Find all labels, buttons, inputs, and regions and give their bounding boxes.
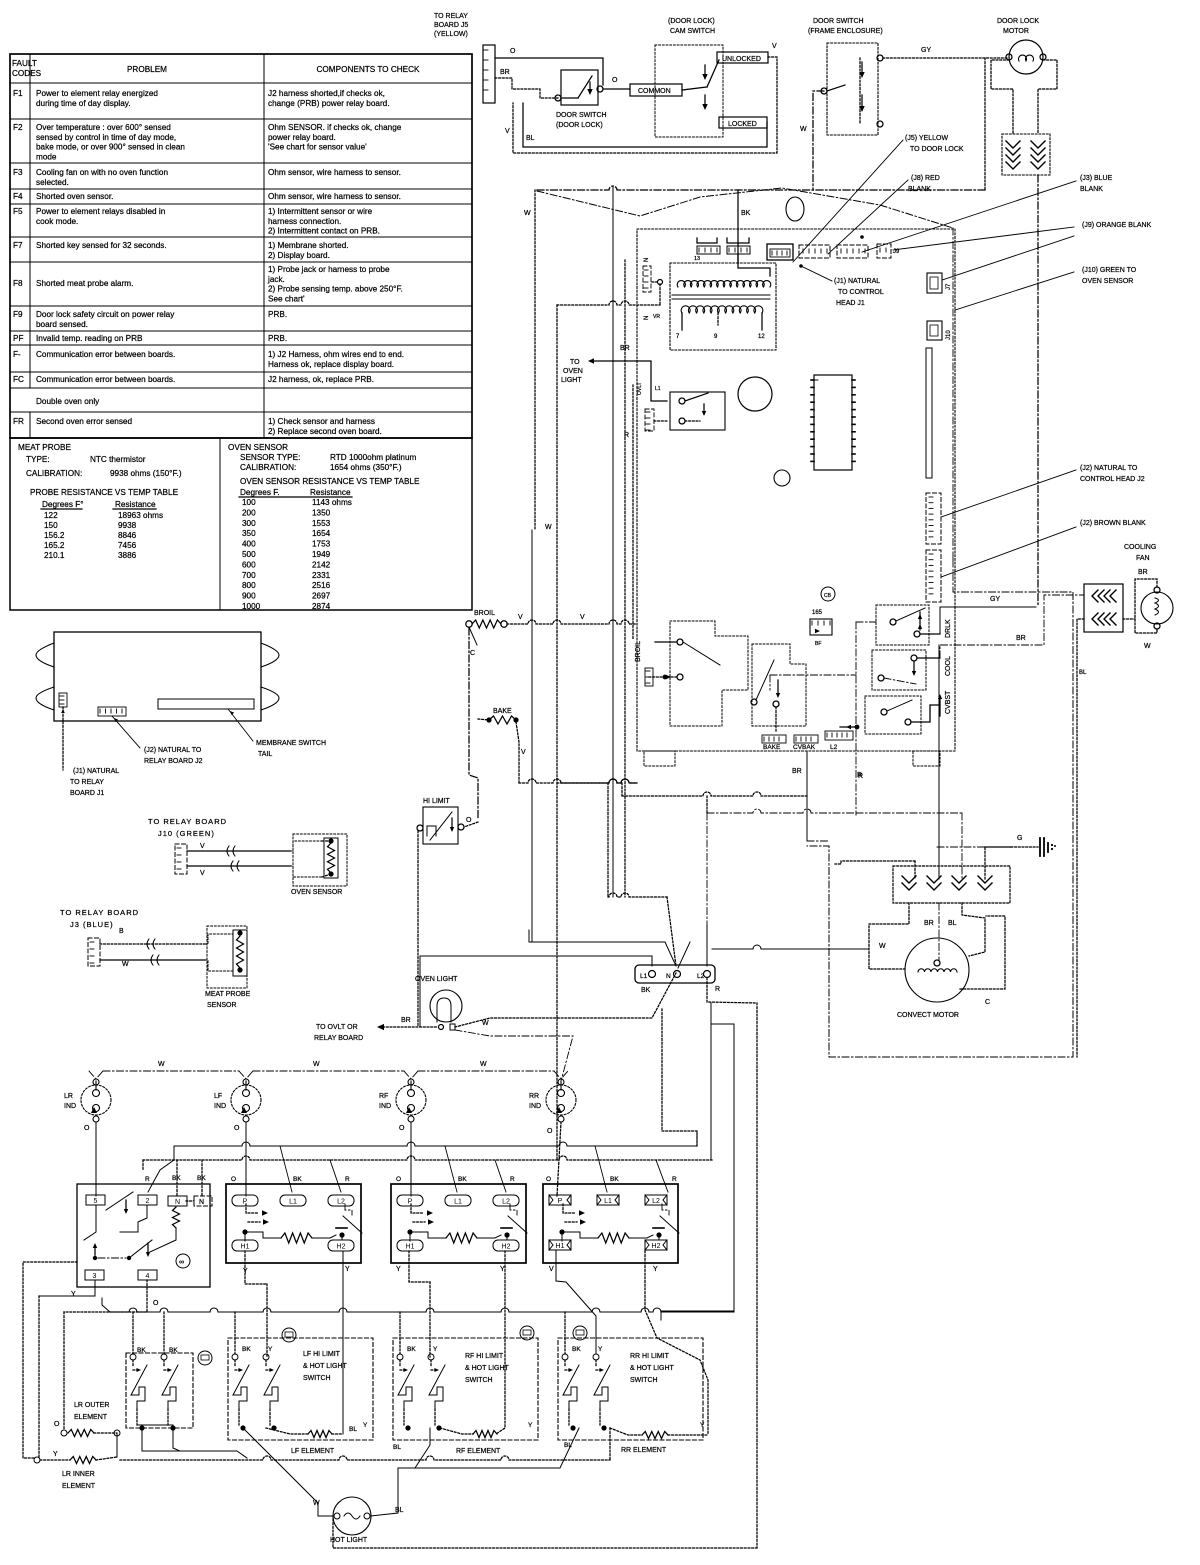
svg-text:selected.: selected. (36, 178, 69, 187)
RR ELEMENT (610, 1428, 642, 1435)
svg-text:BROIL: BROIL (474, 610, 495, 617)
svg-text:LR: LR (64, 1093, 73, 1100)
svg-text:1) J2 Harness, ohm wires end t: 1) J2 Harness, ohm wires end to end. (268, 350, 404, 359)
svg-text:L1: L1 (289, 1199, 297, 1206)
svg-text:L2: L2 (652, 1198, 660, 1205)
svg-text:COMPONENTS TO CHECK: COMPONENTS TO CHECK (317, 65, 421, 74)
svg-text:Shorted key sensed for 32 seco: Shorted key sensed for 32 seconds. (36, 241, 167, 250)
svg-text:(J1) NATURAL: (J1) NATURAL (834, 278, 880, 285)
svg-text:(J10) GREEN TO: (J10) GREEN TO (1082, 267, 1137, 274)
wire from PRB bottom y796 (621, 783, 623, 796)
svg-text:Invalid temp. reading on PRB: Invalid temp. reading on PRB (36, 334, 143, 343)
svg-text:UNLOCKED: UNLOCKED (722, 56, 761, 63)
svg-text:SWITCH: SWITCH (303, 1375, 331, 1382)
svg-text:CB: CB (824, 593, 832, 599)
svg-text:V: V (772, 43, 777, 50)
svg-text:mode: mode (36, 152, 57, 161)
svg-text:VR: VR (653, 314, 660, 320)
small circle component (774, 470, 790, 486)
svg-text:board sensed.: board sensed. (36, 320, 88, 329)
svg-text:N: N (199, 1199, 204, 1206)
PRB right edge trunk (952, 228, 954, 560)
circled CO LR (198, 1351, 212, 1365)
svg-text:BR: BR (1138, 569, 1148, 576)
svg-text:1143 ohms: 1143 ohms (312, 498, 352, 507)
transformer (670, 263, 776, 350)
svg-text:BK: BK (172, 1175, 181, 1182)
svg-text:CONTROL HEAD J2: CONTROL HEAD J2 (1080, 476, 1145, 483)
svg-text:CVBST: CVBST (945, 690, 952, 714)
svg-text:HI LIMIT: HI LIMIT (423, 798, 451, 805)
svg-text:350: 350 (242, 529, 256, 538)
svg-text:DRLK: DRLK (945, 619, 952, 638)
svg-text:5: 5 (94, 1198, 98, 1205)
svg-text:OVEN SENSOR: OVEN SENSOR (291, 889, 342, 896)
svg-text:Y: Y (653, 1266, 658, 1273)
svg-text:PROBE RESISTANCE VS TEMP TABLE: PROBE RESISTANCE VS TEMP TABLE (30, 488, 179, 497)
svg-text:Y: Y (396, 1266, 401, 1273)
svg-text:BK: BK (407, 1346, 416, 1353)
svg-text:BK: BK (197, 1175, 206, 1182)
svg-text:RR ELEMENT: RR ELEMENT (621, 1447, 667, 1454)
svg-text:C: C (470, 650, 475, 657)
svg-text:LIGHT: LIGHT (561, 377, 582, 384)
svg-text:O: O (466, 817, 472, 824)
svg-text:2) Intermittent contact on PRB: 2) Intermittent contact on PRB. (268, 227, 380, 236)
N drops box1 (176, 1160, 178, 1196)
svg-text:8846: 8846 (118, 531, 137, 540)
svg-text:Communication error between bo: Communication error between boards. (36, 350, 175, 359)
display board (control head) (54, 632, 261, 721)
CVBST relay (865, 696, 921, 734)
svg-text:FAULT: FAULT (12, 59, 37, 68)
svg-text:1) Intermittent sensor or wire: 1) Intermittent sensor or wire (268, 207, 373, 216)
svg-text:Y: Y (528, 1422, 533, 1429)
svg-text:(J1) NATURAL: (J1) NATURAL (73, 768, 119, 775)
svg-text:2331: 2331 (312, 571, 331, 580)
svg-text:V: V (505, 128, 510, 135)
svg-text:CODES: CODES (12, 69, 42, 78)
svg-text:sensed by control in time of d: sensed by control in time of day mode, (36, 133, 176, 142)
svg-text:IND: IND (379, 1103, 391, 1110)
svg-text:H2: H2 (337, 1244, 346, 1251)
wire from hi-limit left down (417, 831, 419, 1027)
svg-text:OVEN SENSOR: OVEN SENSOR (1082, 278, 1133, 285)
svg-text:300: 300 (242, 519, 256, 528)
svg-text:O: O (612, 77, 618, 84)
svg-text:1654 ohms (350°F.): 1654 ohms (350°F.) (330, 463, 402, 472)
svg-text:LR INNER: LR INNER (62, 1471, 95, 1478)
svg-text:O: O (84, 1125, 90, 1132)
svg-text:7456: 7456 (118, 541, 137, 550)
svg-text:PF: PF (13, 334, 23, 343)
trunk x=613 solid (612, 187, 614, 897)
svg-text:(J9) ORANGE BLANK: (J9) ORANGE BLANK (1082, 222, 1152, 229)
DRLK relay (876, 605, 929, 645)
svg-text:Degrees F.: Degrees F. (240, 488, 280, 497)
svg-text:100: 100 (242, 498, 256, 507)
svg-text:Y: Y (433, 1346, 438, 1353)
diagonal drops to L1/L2 (280, 1146, 292, 1192)
svg-text:J2 harness, ok, replace PRB.: J2 harness, ok, replace PRB. (268, 375, 374, 384)
svg-text:W: W (122, 961, 129, 968)
svg-text:RTD 1000ohm platinum: RTD 1000ohm platinum (330, 453, 416, 462)
dashdot y841 (807, 840, 829, 842)
svg-text:BAKE: BAKE (763, 744, 781, 751)
svg-text:TO RELAY: TO RELAY (434, 13, 468, 20)
svg-text:O: O (510, 48, 516, 55)
left outer wire (23, 1262, 77, 1458)
svg-text:OVEN LIGHT: OVEN LIGHT (415, 976, 458, 983)
svg-text:H1: H1 (406, 1244, 415, 1251)
junction + coil connectors BAKE CVBAK L2 (855, 725, 860, 730)
oven light relay (670, 392, 725, 430)
svg-text:Shorted meat probe alarm.: Shorted meat probe alarm. (36, 279, 133, 288)
svg-text:MEMBRANE SWITCH: MEMBRANE SWITCH (256, 740, 326, 747)
svg-text:V: V (549, 1266, 554, 1273)
svg-text:BR: BR (1016, 635, 1026, 642)
connector J9 (877, 244, 891, 258)
svg-text:RR HI LIMIT: RR HI LIMIT (630, 1353, 670, 1360)
svg-text:TO RELAY BOARD: TO RELAY BOARD (148, 817, 227, 826)
svg-text:600: 600 (242, 560, 256, 569)
svg-text:DOOR SWITCH: DOOR SWITCH (813, 18, 864, 25)
svg-text:Y: Y (268, 1346, 273, 1353)
svg-text:O: O (231, 1176, 236, 1183)
wire y897 to N (608, 893, 667, 897)
svg-text:NTC thermistor: NTC thermistor (90, 455, 146, 464)
svg-text:Y: Y (700, 1422, 705, 1429)
svg-text:G: G (1017, 835, 1022, 842)
svg-text:Cooling fan on with no oven fu: Cooling fan on with no oven function (36, 168, 168, 177)
svg-text:Y: Y (53, 1451, 58, 1458)
svg-text:O: O (399, 1125, 405, 1132)
svg-text:jack.: jack. (267, 275, 285, 284)
svg-text:CONVECT MOTOR: CONVECT MOTOR (897, 1012, 959, 1019)
svg-text:3: 3 (93, 1273, 97, 1280)
svg-text:BK: BK (572, 1346, 581, 1353)
svg-text:∞: ∞ (179, 1259, 184, 1266)
svg-text:400: 400 (242, 540, 256, 549)
svg-text:Power to element relays disabl: Power to element relays disabled in (36, 207, 166, 216)
svg-text:SWITCH: SWITCH (630, 1377, 658, 1384)
svg-text:Communication error between bo: Communication error between boards. (36, 375, 175, 384)
svg-text:N: N (644, 316, 650, 320)
relay coil circle (738, 377, 772, 411)
svg-text:1) Probe jack or harness to pr: 1) Probe jack or harness to probe (268, 265, 390, 274)
svg-text:RF: RF (379, 1093, 388, 1100)
svg-text:Shorted oven sensor.: Shorted oven sensor. (36, 192, 113, 201)
svg-text:Ohm SENSOR. if checks ok, chan: Ohm SENSOR. if checks ok, change (268, 123, 402, 132)
svg-text:O: O (546, 1176, 551, 1183)
svg-text:BLANK: BLANK (1080, 186, 1103, 193)
svg-text:BAKE: BAKE (493, 708, 512, 715)
J2 connector brown (right edge) (926, 550, 941, 602)
svg-text:N: N (175, 1199, 180, 1206)
svg-text:J10 (GREEN): J10 (GREEN) (158, 829, 215, 838)
trunk x=625 dotted (624, 260, 626, 897)
svg-text:1) Membrane shorted.: 1) Membrane shorted. (268, 241, 349, 250)
svg-text:IND: IND (214, 1103, 226, 1110)
svg-text:P: P (558, 1198, 563, 1205)
svg-text:F1: F1 (13, 89, 23, 98)
svg-text:RELAY BOARD: RELAY BOARD (314, 1035, 363, 1042)
svg-text:BK: BK (293, 1176, 302, 1183)
svg-text:W: W (524, 210, 531, 217)
RF surface unit switch (391, 1184, 526, 1263)
svg-text:BL: BL (349, 1426, 357, 1433)
svg-text:Ohm sensor, wire harness to se: Ohm sensor, wire harness to sensor. (268, 192, 401, 201)
bake relay (752, 644, 806, 726)
fault code table (10, 54, 472, 438)
svg-text:2: 2 (146, 1198, 150, 1205)
svg-text:H1: H1 (556, 1243, 565, 1250)
svg-text:Resistance: Resistance (310, 488, 351, 497)
svg-text:FR: FR (13, 417, 24, 426)
svg-text:1) Check sensor and harness: 1) Check sensor and harness (268, 417, 375, 426)
svg-text:during time of day display.: during time of day display. (36, 99, 131, 108)
svg-text:P: P (408, 1199, 413, 1206)
svg-text:BR: BR (401, 1017, 411, 1024)
svg-text:ELEMENT: ELEMENT (74, 1414, 108, 1421)
wire GY loop to PRB (984, 58, 986, 190)
indicator light LF IND (231, 1085, 261, 1115)
svg-text:V: V (580, 614, 585, 621)
svg-text:RR: RR (529, 1093, 539, 1100)
svg-text:SENSOR: SENSOR (207, 1002, 237, 1009)
svg-text:156.2: 156.2 (44, 531, 65, 540)
RR surface unit switch (543, 1184, 678, 1263)
indicator light LR IND (81, 1085, 111, 1115)
svg-text:(J2) NATURAL TO: (J2) NATURAL TO (144, 747, 202, 754)
svg-text:O: O (396, 1176, 401, 1183)
svg-text:FAN: FAN (1136, 555, 1150, 562)
svg-text:BLANK: BLANK (908, 186, 931, 193)
svg-text:O: O (547, 1128, 553, 1135)
LF ELEMENT (266, 1428, 308, 1434)
svg-text:R: R (672, 1176, 677, 1183)
svg-text:harness connection.: harness connection. (268, 217, 341, 226)
meat probe sensor (207, 926, 247, 988)
svg-text:F4: F4 (13, 192, 23, 201)
svg-text:F8: F8 (13, 279, 23, 288)
svg-text:CALIBRATION:: CALIBRATION: (240, 463, 296, 472)
svg-text:Y: Y (598, 1346, 603, 1353)
svg-text:'See chart for sensor value': 'See chart for sensor value' (268, 143, 367, 152)
svg-text:18963 ohms: 18963 ohms (118, 511, 163, 520)
svg-text:W: W (158, 1061, 165, 1068)
svg-text:FC: FC (13, 375, 24, 384)
connector J8 (799, 245, 830, 258)
svg-text:Double oven only: Double oven only (36, 397, 100, 406)
bus1 solid y1146 (174, 1142, 697, 1146)
svg-text:BR: BR (500, 69, 510, 76)
svg-text:J3 (BLUE): J3 (BLUE) (70, 920, 114, 929)
svg-text:2697: 2697 (312, 592, 331, 601)
LR surface unit switch (dual) (77, 1184, 210, 1287)
svg-text:(DOOR LOCK): (DOOR LOCK) (668, 18, 715, 25)
unlocked contact (717, 52, 768, 63)
convect enclosure (807, 592, 1073, 1057)
trunk drops join buses (556, 1146, 558, 1160)
svg-text:Harness ok, replace display bo: Harness ok, replace display board. (268, 360, 394, 369)
svg-text:1000: 1000 (242, 602, 261, 611)
door lock motor leads (991, 60, 1013, 134)
svg-text:L1: L1 (454, 1199, 462, 1206)
svg-text:(YELLOW): (YELLOW) (434, 31, 468, 38)
svg-text:TO CONTROL: TO CONTROL (838, 289, 884, 296)
svg-text:W: W (480, 1061, 487, 1068)
svg-text:BK: BK (169, 1347, 178, 1354)
svg-text:RF ELEMENT: RF ELEMENT (456, 1448, 501, 1455)
svg-text:O: O (234, 1125, 240, 1132)
svg-text:(J5) YELLOW: (J5) YELLOW (905, 135, 948, 142)
svg-text:F-: F- (13, 350, 21, 359)
svg-text:PROBLEM: PROBLEM (127, 65, 167, 74)
svg-text:LF: LF (214, 1093, 222, 1100)
svg-text:TO DOOR LOCK: TO DOOR LOCK (910, 146, 964, 153)
svg-text:W: W (1144, 643, 1151, 650)
svg-text:OVEN SENSOR: OVEN SENSOR (228, 443, 288, 452)
svg-text:Door lock safety circuit on po: Door lock safety circuit on power relay (36, 310, 175, 319)
svg-text:OVEN SENSOR RESISTANCE VS TEMP: OVEN SENSOR RESISTANCE VS TEMP TABLE (240, 477, 420, 486)
svg-text:BL: BL (526, 135, 535, 142)
IC chip (814, 375, 852, 470)
svg-text:R: R (857, 772, 862, 779)
connector J7 right edge (927, 273, 942, 293)
broil switch blade + C (469, 627, 477, 645)
J2 connector on display board (98, 707, 126, 716)
svg-text:TO RELAY BOARD: TO RELAY BOARD (60, 908, 139, 917)
svg-text:BR: BR (924, 920, 934, 927)
svg-text:& HOT LIGHT: & HOT LIGHT (630, 1365, 675, 1372)
svg-text:& HOT LIGHT: & HOT LIGHT (465, 1365, 510, 1372)
left PRB trunk wires (632, 385, 634, 640)
svg-text:BK: BK (458, 1176, 467, 1183)
svg-text:210.1: 210.1 (44, 551, 65, 560)
svg-text:J7: J7 (946, 283, 952, 290)
wire from solenoid down (J3 blue trunk) (1037, 175, 1039, 607)
svg-text:HEAD J1: HEAD J1 (836, 300, 865, 307)
svg-text:W: W (800, 126, 807, 133)
svg-text:O: O (54, 1421, 60, 1428)
svg-text:1949: 1949 (312, 550, 331, 559)
svg-text:165.2: 165.2 (44, 541, 65, 550)
svg-text:OVEN: OVEN (563, 368, 583, 375)
svg-text:LF ELEMENT: LF ELEMENT (291, 1448, 335, 1455)
svg-text:R: R (510, 1176, 515, 1183)
svg-text:L1: L1 (655, 386, 661, 392)
COOL relay (872, 650, 926, 690)
svg-text:CVBAK: CVBAK (793, 744, 816, 751)
svg-text:DOOR LOCK: DOOR LOCK (997, 18, 1039, 25)
svg-text:N: N (644, 258, 650, 262)
relay feed dash-dot (770, 674, 856, 676)
svg-text:(J2) BROWN BLANK: (J2) BROWN BLANK (1080, 520, 1146, 527)
svg-text:MEAT PROBE: MEAT PROBE (205, 991, 251, 998)
broil relay coil connector (645, 668, 653, 686)
PRB mounting tabs bottom (644, 751, 675, 766)
trunk x=533 (534, 305, 536, 530)
svg-text:(FRAME ENCLOSURE): (FRAME ENCLOSURE) (808, 28, 883, 35)
svg-text:W: W (313, 1500, 320, 1507)
J1 connector on display board (59, 693, 67, 707)
svg-text:See chart': See chart' (268, 294, 305, 303)
svg-text:500: 500 (242, 550, 256, 559)
svg-text:Y: Y (363, 1422, 368, 1429)
svg-text:COOLING: COOLING (1124, 544, 1156, 551)
small connector at relay left (645, 409, 654, 431)
svg-text:122: 122 (44, 511, 58, 520)
svg-text:H2: H2 (502, 1244, 511, 1251)
svg-text:LR OUTER: LR OUTER (74, 1402, 109, 1409)
svg-text:(DOOR LOCK): (DOOR LOCK) (556, 122, 603, 129)
svg-text:BK: BK (242, 1346, 251, 1353)
narrow component bar (926, 348, 932, 478)
LF surface unit switch (226, 1184, 361, 1263)
LR switch internals (106, 1192, 133, 1210)
svg-text:F5: F5 (13, 207, 23, 216)
leader J2 (112, 716, 140, 748)
svg-text:900: 900 (242, 592, 256, 601)
svg-text:power relay board.: power relay board. (268, 133, 336, 142)
svg-text:BL: BL (393, 1444, 401, 1451)
svg-text:150: 150 (44, 521, 58, 530)
svg-text:LOCKED: LOCKED (728, 121, 757, 128)
RF hi limit & hot light switch group (393, 1338, 538, 1440)
svg-text:IND: IND (529, 1103, 541, 1110)
J2 connector natural (right edge) (926, 493, 941, 544)
svg-text:MOTOR: MOTOR (1003, 28, 1029, 35)
svg-text:& HOT LIGHT: & HOT LIGHT (303, 1363, 348, 1370)
PRB bottom dotted y783 (557, 779, 637, 783)
leader membrane tail (228, 709, 253, 741)
svg-text:HOT LIGHT: HOT LIGHT (330, 1537, 368, 1544)
meat probe / oven sensor table (10, 438, 472, 610)
svg-text:3886: 3886 (118, 551, 137, 560)
svg-text:2) Display board.: 2) Display board. (268, 251, 330, 260)
svg-text:V: V (200, 843, 205, 850)
leader J1 (62, 707, 64, 770)
svg-text:V: V (521, 749, 526, 756)
svg-text:W: W (545, 524, 552, 531)
svg-text:Over temperature : over 600° s: Over temperature : over 600° sensed (36, 123, 171, 132)
svg-text:L1: L1 (640, 973, 648, 980)
N branch wires (662, 1009, 697, 1146)
svg-text:BROIL: BROIL (635, 641, 642, 662)
LF hi limit & hot light switch group (228, 1338, 373, 1440)
svg-text:ELEMENT: ELEMENT (62, 1483, 96, 1490)
L1 wire from terminal block (420, 956, 652, 1027)
convect thermal protector box (893, 866, 1010, 903)
svg-text:Resistance: Resistance (115, 500, 156, 509)
svg-text:PRB.: PRB. (268, 310, 287, 319)
svg-text:BL: BL (395, 1507, 404, 1514)
svg-text:L2: L2 (337, 1199, 345, 1206)
RF ELEMENT (440, 1428, 473, 1434)
svg-text:4: 4 (146, 1273, 150, 1280)
svg-text:2874: 2874 (312, 602, 331, 611)
svg-text:BR: BR (792, 768, 802, 775)
svg-text:OVLT: OVLT (637, 382, 643, 395)
svg-text:1350: 1350 (312, 508, 331, 517)
connector J1 (solid) (767, 244, 793, 260)
svg-text:Y: Y (345, 1266, 350, 1273)
svg-text:RF HI LIMIT: RF HI LIMIT (465, 1353, 504, 1360)
fan motor (1141, 592, 1173, 624)
ground symbol (1039, 838, 1041, 856)
svg-text:BOARD J1: BOARD J1 (70, 790, 104, 797)
